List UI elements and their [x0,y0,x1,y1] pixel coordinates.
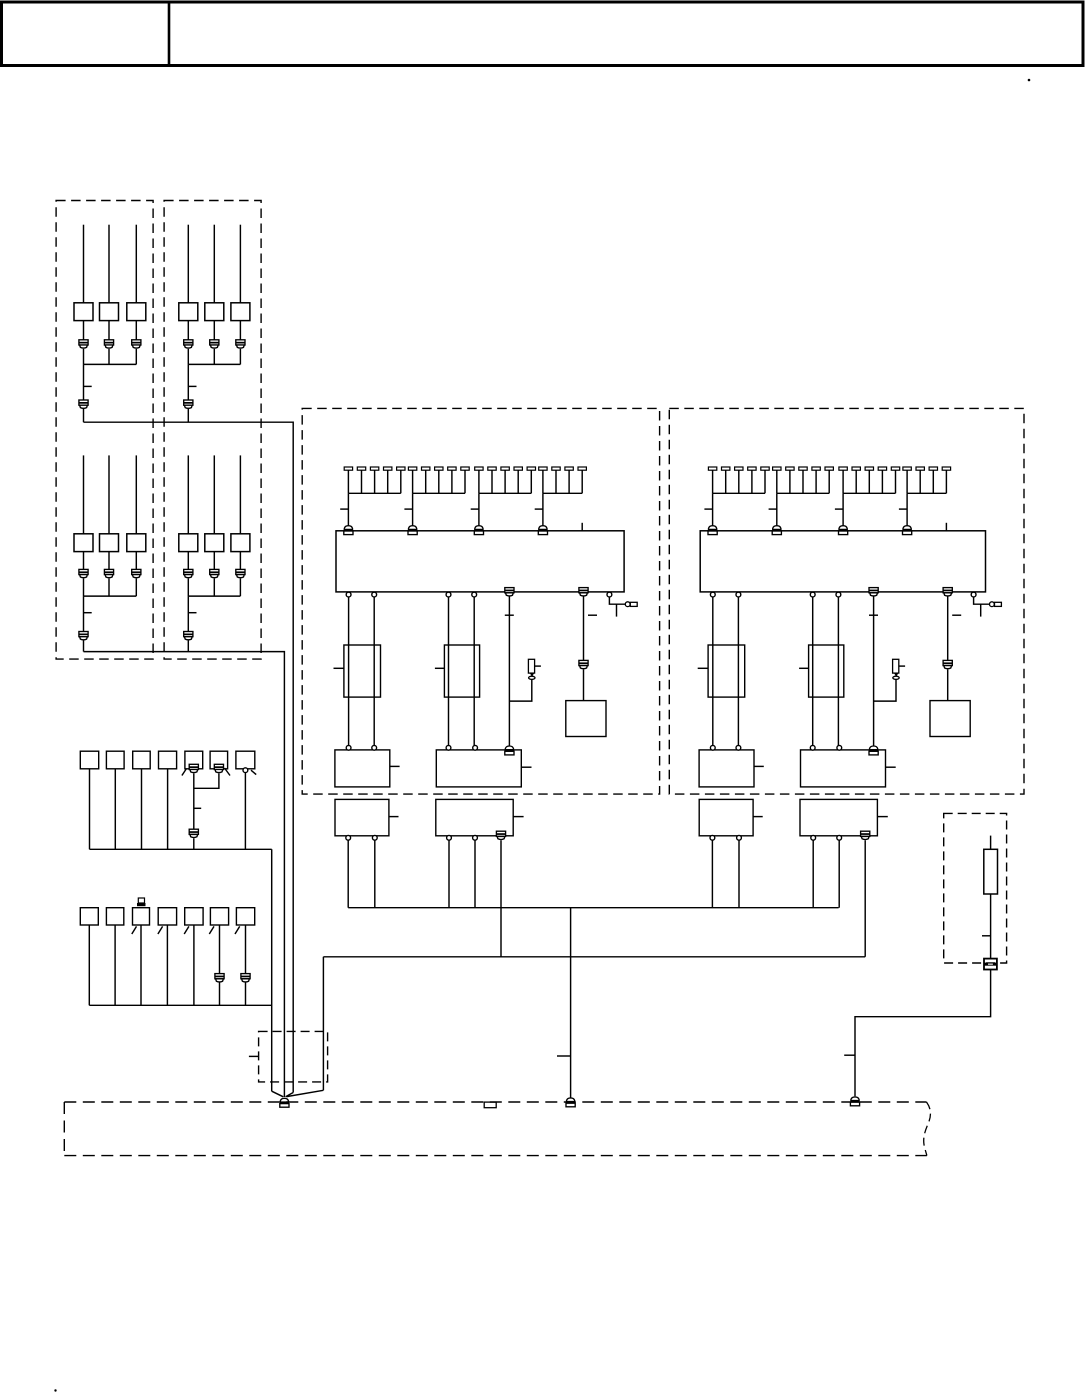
relay row 1 box 5 [185,751,203,769]
left ECM sensor wire [509,679,531,701]
right ECM comb terminal g3.5 [891,467,899,470]
bank A upper group common drop wire [83,364,85,400]
right ECM output pin [710,592,715,597]
bank A lower group wire below box 2 [108,552,110,570]
right ECM box C wire 1 [711,840,713,908]
left ECM comb stem g2.2 [425,470,427,493]
left ECM output pin [472,592,477,597]
switch row 2 box 5 slash [184,926,189,934]
left ECM bullet stub [616,604,618,616]
bank A lower group wire below box 1 [83,552,85,570]
right ECM comb drop wire g3 [842,493,844,525]
left ECM right output pin [607,592,612,597]
bank A upper group tick mark [84,385,92,387]
switch row 2 box 7 connector [241,974,250,979]
switch row 2 box 5 [185,908,203,925]
bank B lower group connector 1 [184,569,193,574]
switch row 2 box 3 wire [140,925,142,1005]
right ECM coil wire 4 [837,597,839,746]
switch row 2 box 3 top connector [138,898,144,903]
bank A upper group common connector [79,400,88,405]
right ECM comb terminal g4.4 [942,467,950,470]
left ECM comb terminal g1.3 [370,467,378,470]
bank A lower group exit wire [83,641,85,652]
left ECM comb terminal g2.2 [422,467,430,470]
right ECM input connector g3 [839,526,847,530]
bank A upper group wire below box 2 [108,321,110,340]
bank A upper group wire to join bus 3 [135,349,137,365]
switch row 2 box 2 wire [114,925,116,1005]
right ECM inline connector B [943,660,952,665]
relay row 1 box 5 wire [193,773,195,829]
bank B upper group wire below box 2 [213,321,215,340]
left ECM output pin [446,592,451,597]
right ECM sensor wire [874,679,896,701]
right ECM comb stem g1.2 [725,470,727,493]
bank B upper group solenoid box 3 [231,303,250,321]
right ECM box B top connector [870,746,878,750]
switch row 2 box 7 wire [245,925,247,1005]
right ECM sensor lead [899,665,905,667]
right ECM sensor tip [894,673,898,676]
left ECM box D connector wire [500,840,502,957]
left ECM sensor grommet [529,676,535,679]
switch row 2 box 4 wire [166,925,168,1005]
right ECM coil wire 2 [737,597,739,746]
left ECM sensor lead [535,665,541,667]
bank B lower group lead 2 [213,455,215,533]
bank A upper group wire below box 3 [135,321,137,340]
bank A upper group solenoid box 3 [127,303,146,321]
left ECM input connector g1 [344,526,352,530]
relay row 1 box 6 slash [225,768,231,776]
bank B upper group exit wire [187,409,189,422]
right ECM comb stem g2.4 [815,470,817,493]
left ECM comb drop wire g3 [478,493,480,525]
resistor ground connector [851,1097,859,1101]
bank B lower group common drop wire [187,596,189,631]
bank A upper group solenoid box 1 [74,303,93,321]
right ECM comb drop tick g4 [899,508,907,510]
switch row 2 box 4 slash [158,926,163,934]
bank B lower group solenoid box 2 [205,534,224,552]
left ECM inline connector B [579,660,588,665]
right ECM box B tick [886,766,896,768]
switch row 2 box 6 [210,908,228,925]
left ECM comb drop wire g1 [347,493,349,525]
left ECM comb terminal g3.1 [475,467,483,470]
right ECM comb drop wire g1 [712,493,714,525]
left ECM box A pin 1 [346,745,351,750]
left ECM condenser box [566,701,606,737]
right ECM comb drop tick g2 [769,508,777,510]
left ECM comb terminal g4.1 [539,467,547,470]
left ECM box D tick [513,816,523,818]
right ECM output pin [836,592,841,597]
right ECM comb terminal g1.4 [748,467,756,470]
bank A lower group solenoid box 3 [127,534,146,552]
left ECM comb stem g2.5 [464,470,466,493]
relay row 1 box 7 slash [251,770,256,774]
bank A lower group join bus [84,595,137,597]
right ECM box C tick [753,816,763,818]
left ECM comb terminal g1.1 [344,467,352,470]
left ECM box A pin 2 [372,745,377,750]
left ECM box C pin 2 [372,835,377,840]
right ECM comb stem g2.3 [802,470,804,493]
relay row 1 box 3 wire [141,769,143,850]
left ECM comb stem g2.3 [438,470,440,493]
long link wire [323,956,865,958]
right ECM comb terminal g2.5 [825,467,833,470]
bank A upper group solenoid box 2 [100,303,119,321]
bank B upper group solenoid box 1 [179,303,198,321]
stray dot bottom left [54,1389,56,1391]
relay row 1 ground bus [90,848,272,850]
bank A lower group wire below box 3 [135,552,137,570]
right ECM sensor grommet [893,676,899,679]
resistor element [984,849,998,894]
left ECM output pin [372,592,377,597]
bus drop tick [557,1055,571,1057]
funnel wire mid-right [286,1093,294,1097]
left ECM output pin [346,592,351,597]
right ECM output pin [810,592,815,597]
right ECM comb stem g3.5 [895,470,897,493]
right ECM ignition coil block 1 [708,645,745,697]
right ECM comb stem g4.1 [906,470,908,493]
right ECM box C wire 2 [738,840,740,908]
left ECM input connector g3 [475,526,483,530]
left ECM box D pin 2 [473,835,478,840]
left ECM comb terminal g3.2 [488,467,496,470]
bank B upper group common connector [184,400,193,405]
left ECM coil block 1 tick [334,667,344,669]
right ECM comb stem g3.3 [868,470,870,493]
switch row 2 box 2 [106,908,123,925]
bank A lower group lead 2 [108,455,110,533]
bank B upper group connector 1 [184,340,193,345]
left ECM box B pin 2 [473,745,478,750]
right ECM ignition coil block 2 [809,645,844,697]
relay row 1 box 1 wire [89,769,91,850]
switch row 2 box 1 [80,908,98,925]
relay row 1 box 6 connector [214,764,223,769]
ground bus bar torn right edge [924,1102,931,1156]
right ECM output connector A [869,588,878,593]
left ECM comb stem g4.3 [568,470,570,493]
right ECM box D tick [877,816,887,818]
left ECM coil block 2 tick [435,667,445,669]
wire: upper groups bus to right drop [84,422,294,1092]
right ECM comb stem g1.1 [712,470,714,493]
bank B upper group solenoid box 2 [205,303,224,321]
right ECM comb stem g4.2 [919,470,921,493]
unused bus connector [484,1102,496,1108]
bank B lower group wire below box 3 [239,552,241,570]
left ECM comb stem g1.5 [400,470,402,493]
bank B upper group lead 2 [213,225,215,303]
right ECM comb group bus g3 [843,492,895,494]
relay row 1 box 5 connector [189,764,198,769]
right ECM box B pin 2 [837,745,842,750]
left ECM input connector g4 [539,526,547,530]
relay row 1 box 4 wire [167,769,169,850]
left ECM comb stem g3.5 [530,470,532,493]
left ECM comb stem g4.4 [581,470,583,493]
left ECM comb terminal g2.4 [448,467,456,470]
right ECM comb group bus g4 [907,492,946,494]
bank B upper group wire to join bus 2 [213,349,215,365]
bank B upper group wire below box 3 [239,321,241,340]
right ECM comb terminal g4.3 [929,467,937,470]
right ECM comb terminal g3.1 [839,467,847,470]
left ECM output connector B [579,588,588,593]
right ECM igniter unit box A [699,750,754,787]
right ECM box D bottom connector [861,831,870,836]
left ECM sensor body [528,659,534,673]
right ECM right pin wire [974,597,990,604]
bank B upper group connector 3 [236,340,245,345]
bank A lower group connector 1 [79,569,88,574]
dashed box: resistor unit [944,813,1007,963]
left ECM wire A tick [505,614,514,616]
right ECM igniter unit box B [801,750,886,787]
right ECM coil module box D [800,799,877,835]
bank B lower group wire to join bus 3 [239,578,241,596]
resistor lead bottom [990,894,992,959]
right ECM comb stem g2.1 [776,470,778,493]
resistor ground wire [855,970,991,1097]
left ECM comb drop tick g1 [340,508,348,510]
ground bus bar top edge [64,1101,926,1103]
right ECM comb terminal g3.2 [852,467,860,470]
ground bus bar bottom edge [64,1155,927,1157]
left ECM comb group bus g3 [479,492,531,494]
bank B upper group common drop wire [187,364,189,400]
left ECM comb terminal g2.1 [408,467,416,470]
bank B upper group wire to join bus 1 [187,349,189,365]
right ECM comb stem g2.2 [789,470,791,493]
right ECM comb terminal g3.3 [865,467,873,470]
left ECM box C tick [389,816,399,818]
bank B upper group tick mark [188,385,196,387]
right ECM comb group bus g1 [713,492,765,494]
bus drop wire [570,908,572,1098]
left ECM comb stem g3.3 [504,470,506,493]
left ECM comb stem g4.1 [542,470,544,493]
right ECM comb stem g1.5 [764,470,766,493]
right ECM box A tick [754,765,764,767]
left ECM box D wire 2 [474,840,476,908]
bank A lower group connector 2 [104,569,113,574]
bank A upper group wire to join bus 2 [108,349,110,365]
left ECM coil module box D [436,799,513,835]
right ECM comb stem g4.4 [945,470,947,493]
bus drop connector [567,1098,575,1102]
right ECM sensor body [893,659,899,673]
left ECM box C wire 1 [347,840,349,908]
left ECM box B top connector [505,746,513,750]
bank A upper group wire to join bus 1 [83,349,85,365]
right ECM comb drop wire g2 [776,493,778,525]
bank B lower group wire to join bus 1 [187,578,189,596]
right ECM comb stem g3.4 [881,470,883,493]
right ECM comb drop tick g1 [704,508,712,510]
right ECM comb terminal g2.4 [812,467,820,470]
resistor lead tick [982,935,991,937]
right ECM wire B lower [947,669,949,700]
bank B lower group join bus [188,595,240,597]
dashed box: engine compartment right [669,408,1024,794]
right ECM box D wire 1 [812,840,814,908]
left ECM comb terminal g1.5 [397,467,405,470]
bank A lower group solenoid box 2 [100,534,119,552]
right ECM comb terminal g4.1 [903,467,911,470]
switch row 2 box 1 wire [88,925,90,1005]
left ECM wire B lower [583,669,585,700]
right ECM output pin [736,592,741,597]
bank A upper group lead 1 [83,225,85,303]
right ECM input connector g1 [709,526,717,530]
left ECM wire from connector A [508,596,510,746]
right ECM comb terminal g2.1 [773,467,781,470]
left ECM comb drop tick g3 [471,508,479,510]
left ECM comb stem g3.1 [478,470,480,493]
bank A lower group lead 3 [135,455,137,533]
dashed box: joint connector [259,1031,328,1082]
left ECM comb stem g4.2 [555,470,557,493]
left ECM box D wire 1 [448,840,450,908]
right ECM wire A tick [869,614,878,616]
left ECM box D pin 1 [447,835,452,840]
right ECM box C pin 1 [710,835,715,840]
right ECM box A pin 1 [710,745,715,750]
left ECM ignition coil block 2 [444,645,479,697]
right ECM comb stem g2.5 [828,470,830,493]
relay row 1 box 3 [133,751,151,769]
switch row 2 box 5 wire [193,925,195,1005]
left ECM box B tick [521,766,531,768]
switch row 2 box 6 connector [215,974,224,979]
bank B lower group solenoid box 1 [179,534,198,552]
bank B lower group common connector [184,632,193,637]
bank B upper group lead 1 [187,225,189,303]
right ECM input connector g2 [773,526,781,530]
left ECM comb terminal g4.2 [552,467,560,470]
bank A upper group wire below box 1 [83,321,85,340]
bank B lower group lead 1 [187,455,189,533]
relay row 1 box 6 [210,751,228,769]
resistor ground tick [844,1054,855,1056]
right ECM comb stem g3.1 [842,470,844,493]
bank A upper group join bus [84,363,137,365]
right ECM comb terminal g1.3 [735,467,743,470]
bank B lower group wire below box 2 [213,552,215,570]
right ECM comb terminal g4.2 [916,467,924,470]
left ECM box D bottom connector [496,831,505,836]
bank B lower group connector 3 [236,569,245,574]
left ECM comb stem g1.3 [374,470,376,493]
switch row 2 ground bus [89,1004,271,1006]
left ECM comb stem g3.4 [517,470,519,493]
right ECM comb group bus g2 [777,492,829,494]
relay row 1 box 2 [106,751,124,769]
left ECM coil wire 3 [448,597,450,746]
right ECM box D pin 1 [811,835,816,840]
ground bus drop wire [271,849,273,1091]
right ECM condenser box [930,701,970,737]
left ECM wire from connector B [583,596,585,661]
bank A lower group connector 3 [132,569,141,574]
left ECM comb terminal g4.3 [565,467,573,470]
bank A upper group connector 1 [79,340,88,345]
bank A lower group wire to join bus 2 [108,578,110,596]
left ECM comb terminal g3.5 [527,467,535,470]
left ECM comb group bus g2 [413,492,465,494]
relay row 1 box 2 wire [114,769,116,850]
right ECM input connector g4 [903,526,911,530]
left ECM comb drop wire g4 [542,493,544,525]
relay row 1 chain tick [194,807,201,809]
bank A lower group tick mark [84,612,92,614]
right ECM comb stem g3.2 [855,470,857,493]
right ECM bullet terminal [990,602,995,607]
bank A upper group connector 3 [132,340,141,345]
bank A lower group solenoid box 1 [74,534,93,552]
right ECM comb terminal g2.2 [786,467,794,470]
switch row 2 box 6 wire [219,925,221,1005]
right ECM comb terminal g3.4 [878,467,886,470]
left ECM igniter unit box A [335,750,390,787]
bank B upper group lead 3 [239,225,241,303]
left ECM comb drop tick g2 [404,508,412,510]
right ECM top stub pin [945,523,947,531]
title block border [2,2,1084,66]
right ECM coil wire 1 [712,597,714,746]
left ECM comb stem g2.4 [451,470,453,493]
left ECM coil module box C [335,799,389,835]
bank A upper group exit wire [83,409,85,422]
bank A lower group lead 1 [83,455,85,533]
left ECM comb drop tick g4 [535,508,543,510]
bank A upper group connector 2 [104,340,113,345]
switch row 2 box 6 slash [209,926,214,934]
right ECM ECM unit box [700,531,985,592]
left ECM coil wire 2 [373,597,375,746]
left ECM top stub pin [581,523,583,531]
right ECM comb terminal g1.5 [761,467,769,470]
bank A lower group common drop wire [83,596,85,631]
right ECM box A pin 2 [736,745,741,750]
left ECM box C pin 1 [346,835,351,840]
relay row 1 box 7 wire [244,772,246,849]
resistor lead top [990,836,992,850]
left ECM comb stem g1.4 [387,470,389,493]
left ECM comb group bus g4 [543,492,582,494]
funnel wire left [272,1091,284,1097]
right ECM box D connector wire [864,840,866,957]
right ECM wire from connector B [947,596,949,661]
joint connector tick [249,1055,259,1057]
left ECM igniter unit box B [436,750,521,787]
bank B lower group tick mark [188,612,196,614]
bank B lower group wire to join bus 2 [213,578,215,596]
left ECM comb stem g3.2 [491,470,493,493]
left ECM bullet terminal [625,602,630,607]
left ECM comb terminal g2.3 [435,467,443,470]
switch row 2 box 4 [158,908,176,925]
